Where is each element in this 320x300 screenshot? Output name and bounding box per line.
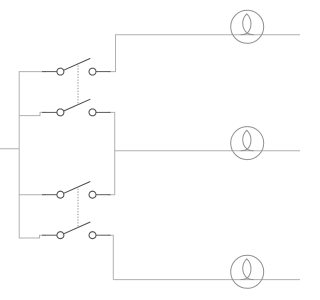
contact circle left row1 <box>57 68 64 75</box>
blade row2 <box>64 99 91 111</box>
contact circle right row2 <box>89 109 96 116</box>
wire: S2 pole B down to lamp L3 feed <box>108 235 113 279</box>
wire: lamp L2 horizontal feed to right edge <box>115 150 300 152</box>
pin stub left row1 <box>42 71 57 73</box>
lamp L2 <box>231 127 264 160</box>
pin stub right row3 <box>96 194 111 196</box>
wire: bus to switch S2 pole B (row 4) with jog <box>19 235 46 238</box>
coupling dashed link of switch S2 <box>77 189 79 228</box>
wire: lamp L3 horizontal feed to right edge <box>113 279 300 281</box>
contact circle left row3 <box>57 191 64 198</box>
blade row4 <box>64 222 91 234</box>
switch S1 pole A (row 1, open) <box>42 58 111 75</box>
wire: left vertical bus <box>18 71 20 238</box>
pin stub left row2 <box>42 111 57 113</box>
switch S2 pole B (row 4, open) <box>42 222 111 239</box>
coupling dashed link of switch S1 <box>77 66 79 105</box>
wire: vertical link S1 pole B to S2 pole A (x=114.7) <box>108 112 115 194</box>
wire: bus to switch S1 pole B (row 2) with jog <box>19 112 46 115</box>
contact circle right row4 <box>89 232 96 239</box>
pin stub right row2 <box>96 111 111 113</box>
switch S2 pole A (row 3, open) <box>42 182 111 199</box>
wire: S1 pole A to node at x=115.5 and up to lamp L1 feed <box>108 35 116 72</box>
pin stub right row1 <box>96 71 111 73</box>
pin stub right row4 <box>96 234 111 236</box>
contact circle left row4 <box>57 232 64 239</box>
lamp L3 <box>231 255 264 288</box>
wire: lamp L1 horizontal feed to right edge <box>115 34 300 36</box>
contact circle right row3 <box>89 191 96 198</box>
contact circle left row2 <box>57 109 64 116</box>
pin stub left row3 <box>42 194 57 196</box>
switch S1 pole B (row 2, open) <box>42 99 111 116</box>
lamp L1 <box>231 10 264 43</box>
wire: left supply lead into bus <box>0 148 19 150</box>
blade row3 <box>64 182 91 194</box>
wire: bus to switch S1 pole A (row 1) <box>19 71 46 73</box>
wire: bus to switch S2 pole A (row 3) <box>19 194 46 196</box>
blade row1 <box>64 58 91 70</box>
contact circle right row1 <box>89 68 96 75</box>
pin stub left row4 <box>42 234 57 236</box>
